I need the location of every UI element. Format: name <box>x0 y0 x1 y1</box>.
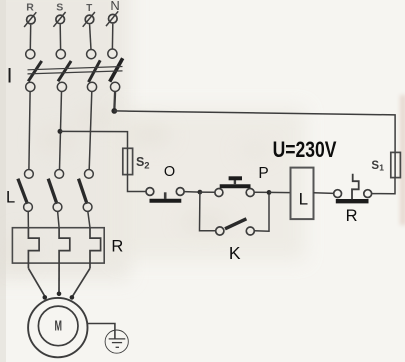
switch I pole 2 upper contact <box>56 50 65 59</box>
coil L (contactor coil) <box>291 168 314 220</box>
switch I pole 4 upper contact <box>108 49 117 58</box>
wire fuse S2 to stop button O <box>128 175 146 192</box>
node on N wire <box>111 108 117 114</box>
wire P to node <box>255 191 270 193</box>
switch I mechanical linkage line a <box>28 67 123 70</box>
terminal symbol R (circle with slash) <box>24 12 36 27</box>
wire down-left branch to contact K <box>200 192 216 231</box>
wire N down to junction <box>113 91 116 111</box>
wire N to fuse S1 (top rail) <box>114 111 395 152</box>
svg-text:T: T <box>86 3 92 14</box>
svg-text:R: R <box>26 2 34 14</box>
start button P (NO) <box>215 178 254 197</box>
earth (protective ground) symbol <box>105 330 128 353</box>
stop button O (NC) <box>146 188 184 201</box>
wire phase R down to contactor <box>29 91 30 169</box>
contactor L pole 1 <box>18 170 33 212</box>
contact R (NC thermal relay contact) <box>334 174 372 202</box>
switch I pole 2 lower contact <box>57 82 66 91</box>
svg-text:I: I <box>7 64 13 87</box>
svg-text:P: P <box>258 165 268 182</box>
wire node to coil L <box>269 191 290 193</box>
contactor L pole 2 <box>48 170 63 212</box>
terminal symbol S <box>53 12 65 27</box>
wire phase T down to contactor <box>89 91 92 169</box>
motor terminal node 2 <box>57 292 62 297</box>
wire contactor pole 3 to relay <box>88 211 90 228</box>
switch I pole 4 lower contact <box>111 82 120 91</box>
switch I blade 3 <box>89 60 101 82</box>
node after P <box>267 190 272 195</box>
switch I pole 1 lower contact <box>26 82 35 91</box>
svg-text:O: O <box>164 164 175 180</box>
wire motor to earth <box>88 324 115 340</box>
fuse S1 <box>391 152 401 177</box>
wire T terminal to switch <box>90 24 91 49</box>
relay heater pole 2 <box>59 228 70 263</box>
svg-text:1: 1 <box>379 162 384 172</box>
terminal symbol T <box>83 12 95 27</box>
svg-text:R: R <box>346 207 358 225</box>
svg-text:L: L <box>6 189 15 207</box>
wire S terminal to switch <box>59 24 61 49</box>
svg-text:2: 2 <box>144 161 149 172</box>
contact K (NO auxiliary) <box>216 219 255 235</box>
motor terminal node 3 <box>70 295 75 300</box>
terminal symbol N <box>106 11 118 26</box>
fuse S2 <box>123 148 133 174</box>
motor M outer circle <box>28 298 87 357</box>
relay heater pole 3 <box>90 228 101 269</box>
node on S phase (tap for control circuit) <box>58 129 63 134</box>
wire S tap to fuse S2 <box>60 131 127 148</box>
wire contactor pole 2 to relay <box>58 211 60 228</box>
svg-text:K: K <box>229 243 241 263</box>
wire contactor pole 1 to relay <box>27 211 29 228</box>
switch I blade 2 <box>58 61 71 81</box>
switch I pole 3 upper contact <box>87 50 96 59</box>
svg-text:U=230V: U=230V <box>273 137 337 162</box>
wire relay pole 2 to motor <box>58 263 60 294</box>
svg-text:S: S <box>56 2 63 14</box>
wire phase S down to contactor <box>60 91 62 169</box>
relay heater pole 1 <box>28 228 39 269</box>
svg-text:N: N <box>110 0 119 13</box>
wire contact R to fuse S1 <box>372 178 395 194</box>
motor terminal node 1 <box>43 295 48 300</box>
svg-text:S: S <box>136 155 144 169</box>
wire relay pole 3 to motor <box>72 268 90 297</box>
switch I pole 1 upper contact <box>26 50 35 59</box>
svg-text:L: L <box>299 189 308 208</box>
wire node to P <box>200 191 215 193</box>
motor M inner circle <box>38 306 78 346</box>
wire N terminal to switch <box>111 24 113 50</box>
wire O to node <box>184 191 200 194</box>
thermal overload relay R box <box>12 228 104 263</box>
node after O <box>198 190 203 195</box>
svg-text:S: S <box>371 160 379 172</box>
wire coil L to contact R <box>314 192 334 195</box>
wire K up to node <box>255 195 270 232</box>
svg-text:M: M <box>55 317 62 334</box>
fuse S1 label <box>371 160 384 172</box>
wire relay pole 1 to motor <box>28 268 45 297</box>
wire R terminal to switch <box>29 25 31 50</box>
fuse S2 label <box>136 155 149 172</box>
switch I blade 1 <box>28 61 42 81</box>
switch I pole 3 lower contact <box>87 82 96 91</box>
switch I mechanical linkage line b <box>28 71 123 74</box>
switch I blade 4 <box>110 58 123 81</box>
svg-text:R: R <box>111 237 123 255</box>
contactor L pole 3 <box>79 170 94 212</box>
